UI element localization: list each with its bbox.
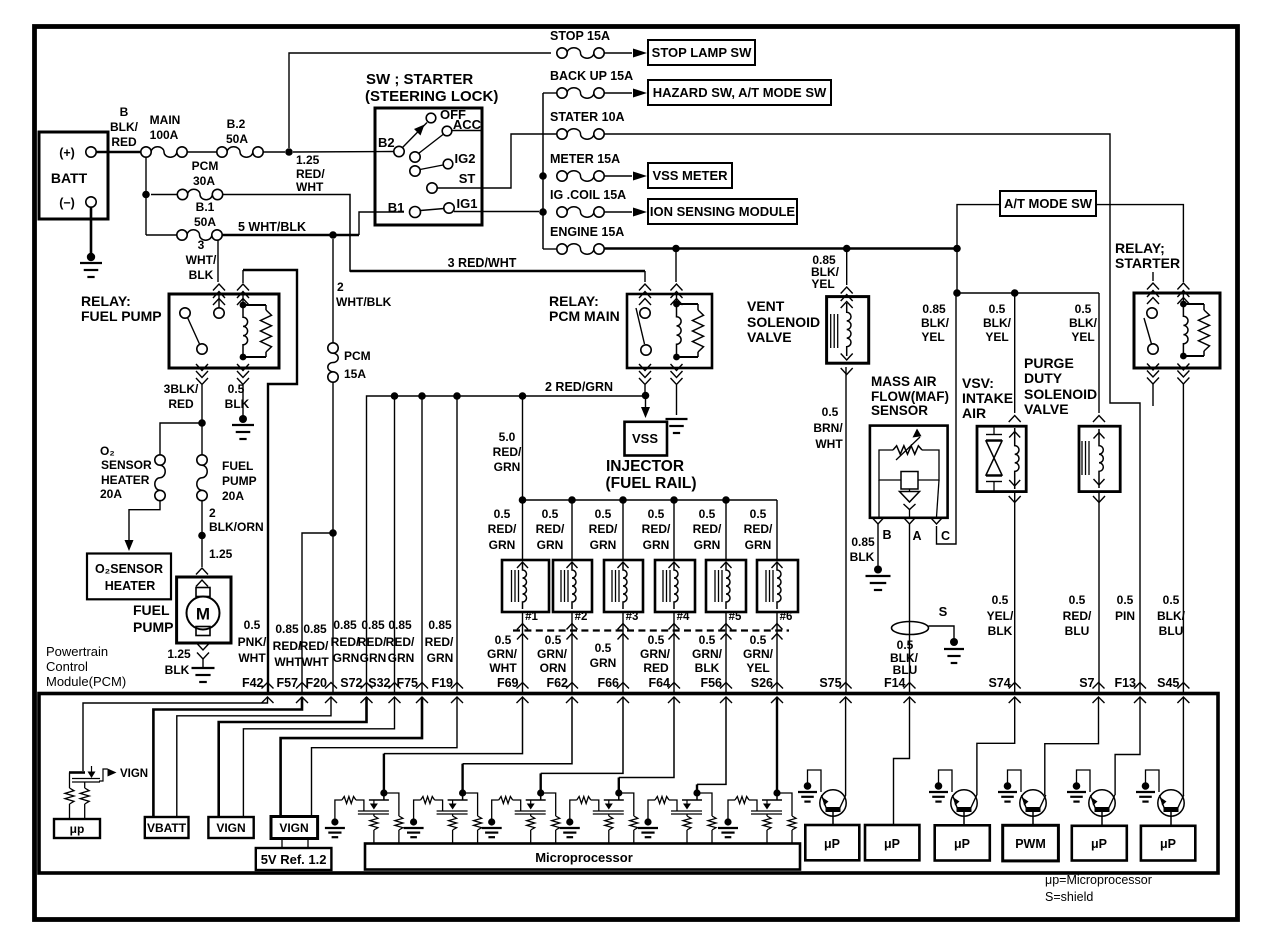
svg-text:PCM: PCM xyxy=(344,349,371,363)
svg-text:0.5: 0.5 xyxy=(595,641,612,655)
svg-text:F75: F75 xyxy=(396,676,418,690)
svg-text:F64: F64 xyxy=(648,676,670,690)
svg-text:MAIN: MAIN xyxy=(150,113,181,127)
connector arrow purge bottom xyxy=(1093,496,1105,503)
svg-text:SENSOR: SENSOR xyxy=(101,458,152,472)
ground driver cell x=618 xyxy=(560,827,580,829)
connector arrows injector 4 low side xyxy=(669,624,680,630)
connector arrows fuel pump relay coil top xyxy=(237,284,249,291)
svg-text:WHT: WHT xyxy=(238,651,266,665)
wire injector 3 feed xyxy=(622,500,624,560)
emitter to box Q S74 xyxy=(963,812,965,825)
transistor Q S7 xyxy=(1020,790,1046,816)
connector arrows maf pins xyxy=(873,518,884,524)
valve VSV INTAKE AIR xyxy=(977,426,1026,491)
connector arrows injector 3 low side xyxy=(618,624,629,630)
emitter to box Q S75 xyxy=(832,812,834,825)
svg-text:PCM MAIN: PCM MAIN xyxy=(549,308,620,324)
svg-text:B: B xyxy=(120,105,129,119)
wire pin to driver cell at x=383 xyxy=(384,697,523,754)
svg-text:STOP 15A: STOP 15A xyxy=(550,29,610,43)
svg-text:S75: S75 xyxy=(819,676,841,690)
transistor Q S75 xyxy=(820,790,846,816)
node F19 tap xyxy=(453,392,461,400)
svg-text:RED/: RED/ xyxy=(425,635,454,649)
svg-text:Module(PCM): Module(PCM) xyxy=(46,674,126,689)
wire to pin F75 xyxy=(421,396,423,694)
svg-text:S=shield: S=shield xyxy=(1045,890,1093,904)
wire pin F13 to transistor xyxy=(1115,697,1140,795)
svg-text:0.5: 0.5 xyxy=(545,633,562,647)
node S32 tap xyxy=(391,392,399,400)
svg-text:0.85: 0.85 xyxy=(361,618,385,632)
svg-text:HEATER: HEATER xyxy=(105,579,155,593)
svg-text:5.0: 5.0 xyxy=(499,430,516,444)
contact B2 xyxy=(394,146,404,156)
svg-text:0.5: 0.5 xyxy=(648,507,665,521)
wire injector 2 feed xyxy=(571,500,573,560)
svg-text:B.2: B.2 xyxy=(227,117,246,131)
driver cell gate resistor x=383 xyxy=(342,797,356,804)
svg-text:INJECTOR: INJECTOR xyxy=(606,458,684,475)
wire 3RED/WHT into relay switch xyxy=(644,271,646,282)
svg-text:GRN: GRN xyxy=(537,538,564,552)
svg-text:VALVE: VALVE xyxy=(747,329,792,345)
wire vent solenoid to pin S75 xyxy=(845,367,847,694)
driver cell gate resistor x=697 xyxy=(655,797,669,804)
svg-text:0.5: 0.5 xyxy=(1117,593,1134,607)
ground pcm main relay coil xyxy=(666,418,688,420)
svg-text:0.5: 0.5 xyxy=(989,302,1006,316)
transistor Q S45 xyxy=(1158,790,1184,816)
svg-text:VALVE: VALVE xyxy=(1024,401,1069,417)
svg-text:μP: μP xyxy=(884,837,900,851)
box uP 6 xyxy=(1141,826,1195,861)
wire to O2 heater fuse xyxy=(160,423,202,455)
svg-text:S: S xyxy=(939,604,948,619)
driver cell transistor x=540 xyxy=(537,789,544,796)
svg-text:3BLK/: 3BLK/ xyxy=(164,382,199,396)
svg-text:RED/: RED/ xyxy=(273,639,302,653)
wire pin to driver cell at x=540 xyxy=(541,697,623,773)
wire injector 6 feed xyxy=(776,500,778,560)
node A/T branch xyxy=(953,245,961,253)
svg-text:1.25: 1.25 xyxy=(209,547,233,561)
connector arrows fuel pump bottom xyxy=(197,644,209,651)
svg-text:RED/: RED/ xyxy=(536,522,565,536)
box HAZARD SW, A/T MODE SW xyxy=(648,80,831,105)
wire relay coil to ground xyxy=(676,385,678,415)
svg-text:GRN: GRN xyxy=(489,538,516,552)
svg-text:0.5: 0.5 xyxy=(992,593,1009,607)
up cell transistor xyxy=(69,771,85,774)
driver cell transistor x=462 xyxy=(459,789,466,796)
svg-text:WHT: WHT xyxy=(489,661,517,675)
svg-text:AIR: AIR xyxy=(962,405,986,421)
svg-text:STARTER: STARTER xyxy=(1115,255,1180,271)
node injector 2 tap xyxy=(568,496,576,504)
wire B.2 to junction xyxy=(187,151,217,153)
relay pcm main switch contacts xyxy=(640,308,650,318)
box up xyxy=(54,819,100,838)
wire injector 3 to PCM xyxy=(622,612,624,694)
maf triangle symbol xyxy=(900,492,920,503)
fuse PCM 15A xyxy=(328,343,338,353)
svg-text:SW ; STARTER: SW ; STARTER xyxy=(366,71,473,88)
svg-text:0.5: 0.5 xyxy=(897,638,914,652)
svg-text:WHT/: WHT/ xyxy=(186,253,217,267)
base ground loop Q S75 xyxy=(808,770,822,792)
wire pin to driver cell at x=777 xyxy=(776,697,778,790)
connector arrows pcm main relay bottom xyxy=(639,371,651,378)
dashed connector line injector rail xyxy=(513,629,789,631)
driver cell transistor x=777 xyxy=(773,789,780,796)
svg-text:0.5: 0.5 xyxy=(699,633,716,647)
ground driver cell x=383 xyxy=(325,827,345,829)
svg-text:PNK/: PNK/ xyxy=(238,635,267,649)
node vent solenoid tap xyxy=(843,245,851,253)
wire to pin S32 xyxy=(394,396,396,694)
svg-text:SOLENOID: SOLENOID xyxy=(1024,386,1097,402)
svg-text:VSS METER: VSS METER xyxy=(652,168,728,183)
svg-text:#6: #6 xyxy=(780,611,793,623)
svg-text:METER 15A: METER 15A xyxy=(550,152,620,166)
svg-text:VENT: VENT xyxy=(747,298,785,314)
svg-text:YEL: YEL xyxy=(1071,330,1094,344)
svg-text:20A: 20A xyxy=(100,487,122,501)
svg-text:F19: F19 xyxy=(431,676,453,690)
svg-text:BLK/: BLK/ xyxy=(921,316,950,330)
svg-text:GRN: GRN xyxy=(388,651,415,665)
wires VIGN2 to 5V ref xyxy=(281,839,283,849)
wire pin F14 to uP2 xyxy=(894,697,910,825)
svg-text:WHT/BLK: WHT/BLK xyxy=(336,295,392,309)
svg-text:(−): (−) xyxy=(59,196,75,210)
svg-text:RED: RED xyxy=(111,135,137,149)
svg-text:0.5: 0.5 xyxy=(595,507,612,521)
contact ST xyxy=(427,183,437,193)
ground driver cell x=777 xyxy=(718,827,738,829)
wire injector 5 to PCM xyxy=(725,612,727,694)
shield ellipse S xyxy=(892,622,929,635)
svg-text:BACK UP 15A: BACK UP 15A xyxy=(550,69,633,83)
module PCM box xyxy=(39,694,1218,874)
svg-text:0.85: 0.85 xyxy=(922,302,946,316)
box ION SENSING MODULE xyxy=(648,199,797,224)
svg-text:WHT: WHT xyxy=(296,180,324,194)
svg-text:A/T MODE SW: A/T MODE SW xyxy=(1004,196,1093,211)
wire pin S45 to transistor xyxy=(1182,697,1184,795)
wire injector 2 to PCM xyxy=(571,612,573,694)
svg-text:3: 3 xyxy=(198,238,205,252)
connector arrows injector 2 low side xyxy=(567,624,578,630)
connector arrows injector 6 low side xyxy=(772,624,783,630)
svg-text:PUMP: PUMP xyxy=(222,474,257,488)
box VSS METER xyxy=(648,163,732,188)
wire ST to STATER fuse xyxy=(437,134,556,188)
wire stop-fuse feeder up xyxy=(289,53,551,148)
svg-text:VIGN: VIGN xyxy=(216,821,245,835)
svg-text:Powertrain: Powertrain xyxy=(46,644,108,659)
svg-text:GRN: GRN xyxy=(745,538,772,552)
svg-text:0.85: 0.85 xyxy=(428,618,452,632)
box O2 SENSOR HEATER xyxy=(87,554,171,600)
starter relay coil xyxy=(1177,283,1189,290)
svg-text:B2: B2 xyxy=(378,135,395,150)
node VSV branch xyxy=(953,289,961,297)
wire injector 5 feed xyxy=(725,500,727,560)
svg-text:GRN/: GRN/ xyxy=(537,647,568,661)
box VIGN xyxy=(208,817,253,838)
arrow to HAZARD SW, A/T MODE SW xyxy=(604,92,632,94)
svg-text:2 RED/GRN: 2 RED/GRN xyxy=(545,380,613,394)
up cell resistors xyxy=(69,773,71,789)
wire to fuel pump motor xyxy=(201,501,203,534)
injector #5 xyxy=(706,560,746,612)
box 5V Ref. 1.2 xyxy=(256,848,332,870)
svg-text:F42: F42 xyxy=(242,676,264,690)
svg-text:BATT: BATT xyxy=(51,170,88,186)
svg-text:BLK: BLK xyxy=(850,550,875,564)
svg-text:F13: F13 xyxy=(1114,676,1136,690)
vsv valve symbol xyxy=(986,434,1002,436)
svg-text:PUMP: PUMP xyxy=(133,619,173,635)
wire injector 1 to PCM xyxy=(522,612,524,694)
wire pin F57 to VBATT xyxy=(153,697,302,817)
fuse B.1 50A xyxy=(146,234,177,236)
svg-text:0.5: 0.5 xyxy=(822,405,839,419)
wire pin S74 to transistor xyxy=(977,697,1015,795)
ground maf pin B xyxy=(866,575,891,577)
switch arm ACC xyxy=(410,152,420,162)
driver cell transistor x=383 xyxy=(380,789,387,796)
maf variable resistor with arrow xyxy=(893,446,922,454)
svg-text:50A: 50A xyxy=(194,215,216,229)
node purge branch xyxy=(1011,289,1019,297)
svg-text:O₂: O₂ xyxy=(100,444,115,458)
svg-text:RED/: RED/ xyxy=(493,445,522,459)
driver cell transistor x=618 xyxy=(615,789,622,796)
svg-text:0.5: 0.5 xyxy=(1075,302,1092,316)
wire B1 feed xyxy=(359,212,404,235)
box uP 3 xyxy=(935,825,990,860)
relay pcm main coil resistor xyxy=(677,303,699,305)
wire pin F42 to up cell xyxy=(83,697,268,771)
box VBATT xyxy=(145,817,189,838)
svg-text:0.5: 0.5 xyxy=(494,507,511,521)
wire relay coil to ground xyxy=(242,385,244,417)
connector arrows vent bottom xyxy=(841,368,853,375)
wire to pin F19 xyxy=(456,396,458,694)
svg-text:BLU: BLU xyxy=(893,663,918,677)
svg-text:F66: F66 xyxy=(597,676,619,690)
maf pin stubs xyxy=(878,480,880,517)
svg-text:RELAY:: RELAY: xyxy=(81,293,131,309)
wire pin S72 to VIGN xyxy=(219,697,367,817)
svg-text:S74: S74 xyxy=(988,676,1010,690)
svg-text:GRN: GRN xyxy=(360,651,387,665)
driver cell gate resistor x=540 xyxy=(499,797,513,804)
arrow to VSS METER xyxy=(604,175,632,177)
svg-text:B.1: B.1 xyxy=(196,200,215,214)
svg-text:BLK: BLK xyxy=(988,624,1013,638)
svg-text:μp: μp xyxy=(70,822,85,836)
solenoid VENT SOLENOID VALVE xyxy=(827,297,869,364)
svg-text:RED/: RED/ xyxy=(744,522,773,536)
svg-text:0.5: 0.5 xyxy=(542,507,559,521)
connector arrows starter relay bottom xyxy=(1147,371,1159,378)
svg-text:RED/: RED/ xyxy=(296,167,325,181)
starter relay switch stub top xyxy=(1152,272,1154,281)
svg-text:BLK/: BLK/ xyxy=(110,120,139,134)
solenoid PURGE DUTY xyxy=(1079,426,1120,491)
svg-text:2: 2 xyxy=(337,280,344,294)
wire feeder down-left column xyxy=(145,157,147,235)
contact IG2 and arm xyxy=(443,159,453,169)
svg-text:IG2: IG2 xyxy=(455,151,476,166)
svg-text:ION SENSING MODULE: ION SENSING MODULE xyxy=(650,204,796,219)
svg-text:FUEL: FUEL xyxy=(222,459,253,473)
box PWM xyxy=(1003,825,1059,861)
emitter to box Q F13 xyxy=(1101,812,1103,825)
fuse PCM 30A xyxy=(177,189,187,199)
svg-text:S32: S32 xyxy=(368,676,390,690)
starter relay switch contacts xyxy=(1147,308,1157,318)
wire starter relay coil to pin S45 xyxy=(1182,384,1184,694)
svg-text:#1: #1 xyxy=(525,611,538,623)
svg-text:RED/: RED/ xyxy=(642,522,671,536)
svg-text:MASS AIR: MASS AIR xyxy=(871,374,937,389)
contact B1 and arm to IG1 xyxy=(410,207,421,218)
svg-text:SENSOR: SENSOR xyxy=(871,403,928,418)
wire 0.85 BLK/YEL to maf pin C xyxy=(937,293,957,544)
ground battery xyxy=(80,262,102,264)
svg-text:RED/: RED/ xyxy=(331,635,360,649)
svg-text:YEL: YEL xyxy=(811,277,834,291)
svg-text:GRN/: GRN/ xyxy=(743,647,774,661)
svg-text:VIGN: VIGN xyxy=(279,821,308,835)
contact ACC xyxy=(442,126,452,136)
svg-text:50A: 50A xyxy=(226,132,248,146)
svg-text:F14: F14 xyxy=(884,676,906,690)
svg-text:#3: #3 xyxy=(626,611,639,623)
wire B.1 output down to relay xyxy=(217,240,219,282)
injector #2 xyxy=(553,560,592,612)
wire ignition feeder column xyxy=(542,93,544,249)
svg-text:PCM: PCM xyxy=(192,159,219,173)
node injector rail tap xyxy=(519,392,527,400)
svg-text:RED/: RED/ xyxy=(1063,609,1092,623)
svg-text:μP: μP xyxy=(954,837,970,851)
svg-text:0.5: 0.5 xyxy=(1069,593,1086,607)
vsv coil xyxy=(1015,428,1019,489)
svg-text:0.5: 0.5 xyxy=(750,633,767,647)
svg-text:RED/: RED/ xyxy=(693,522,722,536)
wire ENGINE 15A feed bus xyxy=(604,247,957,250)
wire relay output to 2RED/GRN rail xyxy=(644,385,646,394)
svg-text:GRN: GRN xyxy=(590,538,617,552)
wire engine bus to vent solenoid xyxy=(846,252,848,285)
svg-text:VIGN: VIGN xyxy=(120,768,148,780)
svg-text:B: B xyxy=(882,528,891,542)
svg-text:VSS: VSS xyxy=(632,431,658,446)
svg-text:GRN/: GRN/ xyxy=(692,647,723,661)
svg-text:ENGINE 15A: ENGINE 15A xyxy=(550,225,624,239)
svg-text:GRN: GRN xyxy=(694,538,721,552)
driver cell transistor x=697 xyxy=(693,789,700,796)
svg-text:BLK: BLK xyxy=(225,397,250,411)
svg-text:3 RED/WHT: 3 RED/WHT xyxy=(448,256,517,270)
svg-text:μP: μP xyxy=(1160,837,1176,851)
wire STATER 10A to starter relay area xyxy=(604,134,1140,694)
wire maf pin A to pin F14 with shield xyxy=(909,524,911,694)
node PCM-main-relay coil tap xyxy=(672,245,680,253)
svg-text:0.85: 0.85 xyxy=(333,618,357,632)
svg-text:ORN: ORN xyxy=(540,661,567,675)
svg-text:RED/: RED/ xyxy=(300,639,329,653)
wire injector 4 feed xyxy=(673,500,675,560)
svg-text:Microprocessor: Microprocessor xyxy=(535,850,633,865)
svg-text:F56: F56 xyxy=(700,676,722,690)
node METER tap xyxy=(539,172,547,180)
VIGN arrow up cell xyxy=(99,769,108,781)
node F57 branch xyxy=(329,529,337,537)
ground driver cell x=540 xyxy=(482,827,502,829)
svg-text:#4: #4 xyxy=(677,611,690,623)
transistor Q F13 xyxy=(1089,790,1115,816)
svg-text:GRN: GRN xyxy=(643,538,670,552)
svg-text:FUEL PUMP: FUEL PUMP xyxy=(81,308,162,324)
relay pcm main coil xyxy=(676,294,678,303)
connector arrows injector 5 low side xyxy=(721,624,732,630)
svg-text:GRN: GRN xyxy=(590,656,617,670)
driver cell gate resistor x=462 xyxy=(421,797,435,804)
wire branch to pin F57 xyxy=(302,533,333,694)
svg-text:(+): (+) xyxy=(59,146,75,160)
svg-text:IG .COIL 15A: IG .COIL 15A xyxy=(550,188,626,202)
svg-text:ACC: ACC xyxy=(453,117,482,132)
wire 2 RED/GRN rail xyxy=(367,396,646,694)
svg-text:F69: F69 xyxy=(497,676,519,690)
driver cell gate resistor x=777 xyxy=(735,797,749,804)
wire pin S75 into PCM xyxy=(845,697,847,795)
svg-text:30A: 30A xyxy=(193,174,215,188)
fuse MAIN 100A xyxy=(141,147,151,157)
svg-text:0.85: 0.85 xyxy=(303,622,327,636)
svg-text:DUTY: DUTY xyxy=(1024,370,1063,386)
node injector 5 tap xyxy=(722,496,730,504)
svg-text:F20: F20 xyxy=(305,676,327,690)
wire to purge valve xyxy=(1098,293,1100,413)
injector #4 xyxy=(655,560,695,612)
svg-text:WHT: WHT xyxy=(274,655,302,669)
base ground loop Q F13 xyxy=(1077,770,1091,792)
switch arm B2-OFF with arrowhead xyxy=(403,123,428,148)
svg-text:YEL/: YEL/ xyxy=(987,609,1014,623)
svg-text:(STEERING LOCK): (STEERING LOCK) xyxy=(365,88,498,105)
node injector 1 tap xyxy=(519,496,527,504)
svg-text:GRN/: GRN/ xyxy=(487,647,518,661)
node main junction xyxy=(285,148,293,156)
wire fuel pump relay coil drive from PCM F42 xyxy=(243,270,297,694)
svg-text:WHT: WHT xyxy=(815,437,843,451)
wire battery negative to ground xyxy=(90,207,93,256)
svg-text:RED: RED xyxy=(168,397,194,411)
svg-text:F62: F62 xyxy=(546,676,568,690)
wire injector supply rail xyxy=(523,499,778,501)
svg-text:BLK/: BLK/ xyxy=(1157,609,1186,623)
base ground loop Q S45 xyxy=(1146,770,1160,792)
